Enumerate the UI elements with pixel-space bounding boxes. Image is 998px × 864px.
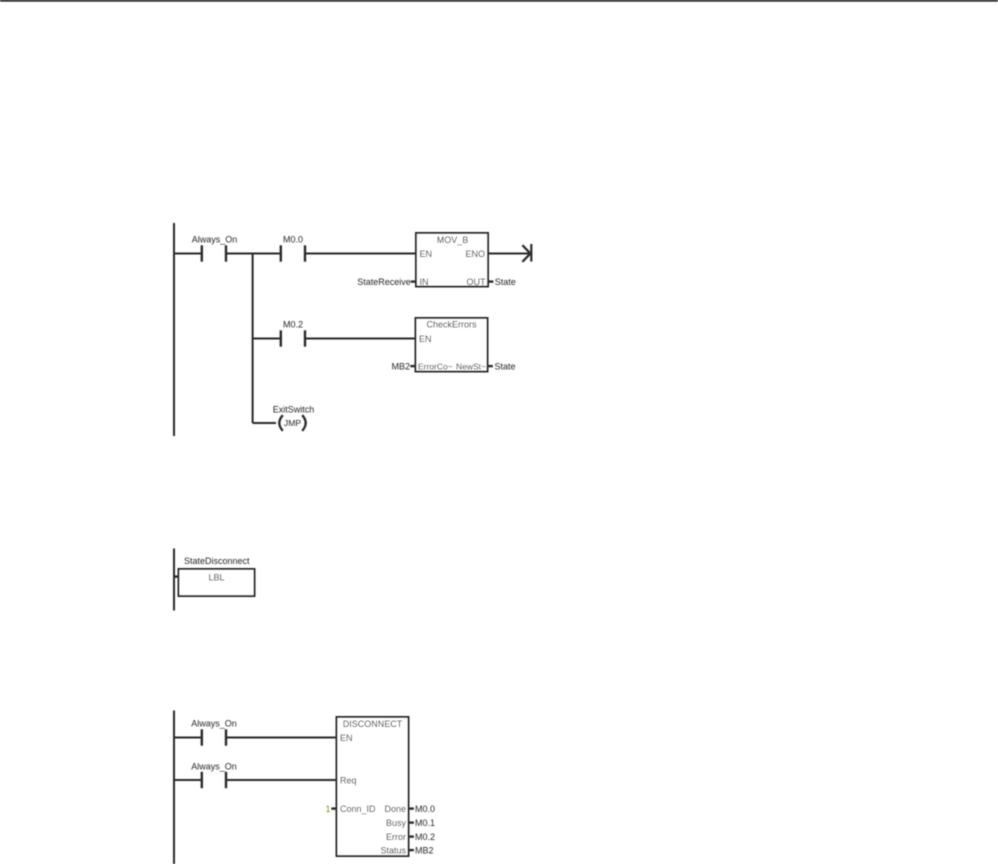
coil JMP [279, 415, 305, 431]
svg-text:StateDisconnect: StateDisconnect [184, 556, 250, 566]
svg-text:JMP: JMP [284, 418, 301, 428]
svg-text:EN: EN [340, 733, 353, 743]
svg-text:Busy: Busy [386, 818, 407, 828]
contact Always_On rung B [202, 772, 226, 788]
svg-text:Status: Status [380, 845, 406, 855]
open branch arrow [522, 244, 531, 262]
pin Error operand M0.2 [408, 832, 435, 842]
pin Status operand MB2 [408, 845, 433, 855]
wire contact M0.0 to MOV_B EN [306, 253, 416, 255]
svg-text:ENO: ENO [465, 249, 485, 259]
svg-text:Error: Error [386, 832, 406, 842]
power rail network 1 [173, 223, 175, 436]
wire rail to LBL box [174, 575, 179, 577]
svg-text:MOV_B: MOV_B [437, 235, 469, 245]
wire rail to contact Always_On [173, 253, 201, 255]
svg-text:EN: EN [419, 334, 432, 344]
svg-text:State: State [495, 361, 516, 371]
contact M0.2 [281, 330, 305, 346]
svg-text:StateReceive: StateReceive [357, 277, 411, 287]
wire branch to coil JMP [253, 422, 276, 424]
svg-text:Always_On: Always_On [191, 719, 237, 729]
wire MOV_B ENO to arrow [488, 253, 529, 255]
svg-text:OUT: OUT [467, 277, 487, 287]
svg-text:Done: Done [384, 804, 406, 814]
branch vertical wire [252, 254, 254, 424]
svg-text:Req: Req [340, 775, 357, 785]
svg-text:ExitSwitch: ExitSwitch [273, 405, 315, 415]
svg-text:ErrorCo~: ErrorCo~ [418, 361, 453, 371]
wire contact M0.2 to CheckErrors EN [306, 338, 416, 340]
svg-text:NewSt~: NewSt~ [456, 361, 486, 371]
pin Busy operand M0.1 [408, 818, 435, 828]
box CheckErrors [416, 318, 488, 372]
svg-text:IN: IN [420, 277, 429, 287]
power rail network 2 [173, 549, 175, 611]
svg-text:M0.1: M0.1 [415, 818, 435, 828]
svg-text:1: 1 [325, 804, 330, 814]
svg-text:Always_On: Always_On [191, 762, 237, 772]
svg-text:State: State [495, 277, 516, 287]
svg-text:DISCONNECT: DISCONNECT [343, 719, 403, 729]
box MOV_B [416, 233, 488, 287]
pin operand State [487, 361, 515, 371]
box DISCONNECT [337, 717, 409, 856]
contact Always_On rung A [202, 729, 226, 745]
box LBL [179, 569, 255, 596]
wire rail to contact Always_On rung A [173, 737, 201, 739]
svg-text:M0.2: M0.2 [415, 832, 435, 842]
contact Always_On [202, 245, 226, 261]
wire rail to contact Always_On rung B [173, 779, 201, 781]
svg-text:CheckErrors: CheckErrors [426, 319, 477, 329]
svg-text:M0.2: M0.2 [283, 320, 303, 330]
contact M0.0 [281, 245, 305, 261]
wire contact to DISCONNECT EN [227, 737, 337, 739]
svg-text:Conn_ID: Conn_ID [340, 804, 376, 814]
wire branch to contact M0.2 [253, 338, 280, 340]
svg-text:Always_On: Always_On [192, 235, 238, 245]
pin Conn_ID constant 1 [325, 804, 336, 814]
pin OUT operand State [488, 277, 516, 287]
page top border [0, 0, 998, 2]
svg-text:MB2: MB2 [391, 361, 410, 371]
svg-text:EN: EN [420, 249, 433, 259]
svg-text:M0.0: M0.0 [283, 235, 303, 245]
pin IN operand StateReceive [357, 277, 416, 287]
pin operand MB2 [391, 361, 415, 371]
svg-text:MB2: MB2 [415, 845, 434, 855]
svg-text:LBL: LBL [208, 572, 224, 582]
power rail network 3 [173, 711, 175, 864]
wire contact to DISCONNECT Req [227, 779, 337, 781]
pin Done operand M0.0 [408, 804, 435, 814]
svg-text:M0.0: M0.0 [415, 804, 435, 814]
wire contact to contact M0.0 [227, 253, 280, 255]
